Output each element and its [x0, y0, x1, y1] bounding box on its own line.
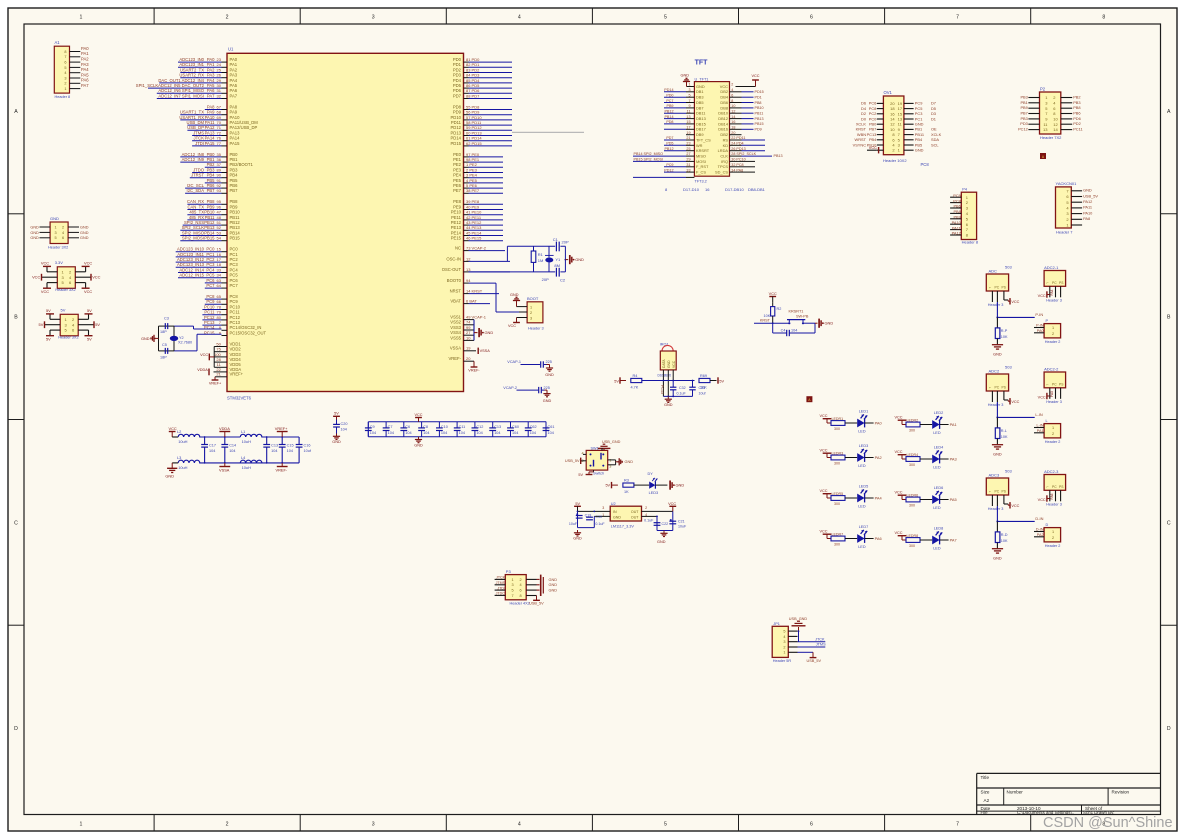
svg-text:GND: GND — [549, 583, 558, 587]
svg-text:3: 3 — [688, 88, 690, 92]
svg-text:PA2: PA2 — [81, 57, 89, 62]
svg-text:5V: 5V — [46, 308, 51, 313]
svg-text:USB_5V: USB_5V — [1083, 193, 1098, 198]
header A1 (Header 8) — [54, 40, 80, 99]
svg-text:GND: GND — [30, 236, 39, 240]
svg-text:10uF: 10uF — [569, 522, 578, 526]
svg-text:C7: C7 — [388, 425, 393, 429]
svg-text:PC: PC — [995, 490, 1000, 494]
capacitor C4 104 — [773, 323, 815, 336]
svg-text:Header 2: Header 2 — [1045, 340, 1061, 344]
MCU VDD pins group — [214, 341, 241, 367]
svg-text:DB8: DB8 — [720, 105, 728, 110]
svg-text:6: 6 — [731, 93, 733, 97]
svg-text:P-IN: P-IN — [1035, 312, 1043, 317]
svg-text:PC9: PC9 — [953, 193, 961, 198]
svg-text:3: 3 — [372, 822, 375, 828]
svg-text:P3: P3 — [506, 569, 512, 574]
LED LED5 — [857, 485, 882, 509]
VCC at ADC2-2 — [1038, 393, 1050, 400]
svg-text:USB_5V: USB_5V — [565, 459, 580, 463]
MCU pin PC14/OSC32_IN (pin 8) — [204, 325, 261, 330]
svg-text:PA6: PA6 — [1050, 493, 1054, 499]
svg-text:104: 104 — [548, 431, 554, 435]
MCU pin PA4 (pin 29) — [158, 78, 237, 83]
svg-text:VCC: VCC — [169, 426, 177, 431]
svg-text:1: 1 — [1052, 530, 1054, 534]
svg-text:62 PD15: 62 PD15 — [466, 141, 482, 146]
svg-text:RS: RS — [723, 137, 729, 142]
svg-text:8M: 8M — [554, 263, 560, 268]
svg-text:PA15: PA15 — [205, 141, 216, 146]
MCU pin PD14 (pin 61) — [451, 136, 512, 141]
svg-text:93: 93 — [217, 188, 222, 193]
MCU pin PE0 (pin 97) — [453, 152, 503, 157]
TFT bottom annotation — [665, 187, 766, 192]
svg-text:Header 2: Header 2 — [1045, 440, 1061, 444]
capacitor C20 104 — [333, 420, 347, 434]
MCU pin PD3 (pin 84) — [453, 73, 512, 78]
inductor L1 10uH — [240, 429, 262, 444]
svg-text:MISO: MISO — [696, 154, 706, 159]
svg-text:225: 225 — [544, 386, 550, 390]
svg-text:7: 7 — [688, 99, 690, 103]
svg-text:5V: 5V — [61, 308, 66, 313]
svg-text:PA8: PA8 — [1083, 216, 1090, 221]
svg-text:GND: GND — [414, 443, 423, 447]
MCU VREF- pin — [448, 356, 480, 373]
MCU pin PD12 (pin 59) — [451, 125, 512, 130]
svg-text:LED2: LED2 — [934, 411, 944, 415]
svg-text:SCL: SCL — [931, 142, 939, 147]
svg-text:C61: C61 — [548, 425, 555, 429]
svg-text:73 VCAP-2: 73 VCAP-2 — [466, 246, 487, 251]
wire PC15 to crystal — [174, 334, 222, 351]
svg-text:PC: PC — [1052, 382, 1057, 386]
MCU pin PA9 (pin 68) — [180, 110, 238, 115]
svg-text:34 PA8: 34 PA8 — [731, 168, 743, 172]
svg-text:PC: PC — [995, 286, 1000, 290]
svg-text:LED3: LED3 — [859, 444, 869, 448]
svg-text:PB11: PB11 — [755, 112, 764, 116]
svg-text:PA15: PA15 — [230, 141, 241, 146]
switch top pin to USB_GND — [601, 448, 603, 450]
svg-text:10: 10 — [466, 335, 471, 340]
svg-text:ADC12_IN7 SPI1_MOSI: ADC12_IN7 SPI1_MOSI — [158, 93, 204, 98]
MCU pin PC15/OSC32_OUT (pin 9) — [204, 330, 266, 335]
svg-text:13: 13 — [466, 267, 471, 272]
potentiometer ADC2 503 — [986, 365, 1012, 408]
wire P-IN — [996, 302, 1043, 318]
svg-text:GND: GND — [549, 589, 558, 593]
svg-text:PB10: PB10 — [755, 106, 764, 110]
svg-text:1: 1 — [530, 305, 532, 309]
svg-text:KRSRT1: KRSRT1 — [789, 309, 804, 313]
svg-text:14: 14 — [731, 115, 735, 119]
ground above BOOT header — [510, 293, 520, 307]
svg-text:1: 1 — [609, 459, 611, 463]
MCU pin PE9 (pin 40) — [453, 204, 503, 209]
svg-text:JTRST: JTRST — [191, 173, 204, 178]
svg-text:VCC: VCC — [200, 353, 208, 357]
svg-text:4: 4 — [731, 88, 733, 92]
MCU pin PD0 (pin 81) — [453, 57, 512, 62]
MCU pin PC0 (pin 15) — [176, 247, 239, 252]
svg-text:2: 2 — [783, 645, 785, 649]
svg-text:5: 5 — [783, 630, 785, 634]
svg-text:Header 3X2: Header 3X2 — [48, 246, 68, 250]
GND at VSS pins — [474, 328, 493, 337]
svg-text:8: 8 — [731, 99, 733, 103]
header P3 (Header 4X2) — [495, 569, 537, 606]
svg-text:300: 300 — [909, 504, 915, 508]
MCU pin PB8 (pin 95) — [187, 199, 238, 204]
svg-text:VCC: VCC — [751, 74, 759, 78]
switch bottom pin to 5V — [578, 470, 593, 477]
svg-text:18P: 18P — [160, 356, 167, 360]
svg-text:VCC: VCC — [84, 261, 92, 266]
capacitor C3 18P — [160, 317, 169, 335]
header GND (Header 3X2) — [30, 216, 88, 250]
svg-text:PA7: PA7 — [81, 83, 89, 88]
svg-text:Y2: Y2 — [179, 336, 184, 340]
USB_5V at P3 pin8 — [526, 596, 544, 606]
MCU pin PB10 (pin 47) — [187, 210, 240, 215]
net PC13 at sensor — [660, 385, 664, 394]
svg-text:VCC: VCC — [820, 449, 828, 453]
capacitor C6 104 — [400, 422, 411, 437]
svg-text:JTDI: JTDI — [497, 586, 505, 590]
capacitor C60 104 — [507, 422, 519, 437]
svg-text:10uf: 10uf — [699, 392, 706, 396]
svg-text:Number: Number — [1007, 790, 1024, 795]
LED DY (LED3) — [648, 472, 668, 495]
svg-text:PA7: PA7 — [950, 537, 957, 542]
svg-text:1: 1 — [55, 225, 57, 229]
MCU pin PC10 (pin 78) — [202, 304, 240, 309]
5V at power LED — [605, 482, 617, 488]
svg-text:C13: C13 — [494, 425, 501, 429]
MCU pin PB0 (pin 35) — [180, 152, 238, 157]
resistor R1 1M — [531, 246, 543, 272]
svg-text:503: 503 — [1005, 469, 1012, 474]
svg-text:21: 21 — [216, 372, 221, 377]
svg-text:VDDA: VDDA — [197, 368, 208, 372]
svg-text:20P: 20P — [542, 277, 549, 282]
svg-text:ADC12_IN9: ADC12_IN9 — [182, 157, 205, 162]
capacitor C30 0.1uF — [586, 515, 605, 526]
crystal loop wires — [159, 326, 175, 351]
MCU pin PE7 (pin 38) — [453, 188, 503, 193]
MCU pin PB13 (pin 52) — [180, 225, 240, 230]
MCU pin BOOT0 — [447, 278, 496, 283]
svg-text:6 BAT: 6 BAT — [466, 299, 477, 304]
svg-text:VCC: VCC — [1011, 300, 1019, 304]
svg-text:VCC: VCC — [895, 531, 903, 535]
svg-text:PB2: PB2 — [1073, 95, 1080, 100]
svg-text:104: 104 — [512, 431, 518, 435]
svg-text:DATA: DATA — [662, 359, 666, 368]
svg-text:VCC: VCC — [820, 489, 828, 493]
5V input at U2 — [574, 502, 581, 512]
svg-text:TFT_CS: TFT_CS — [696, 137, 711, 142]
svg-text:54: 54 — [217, 236, 222, 241]
svg-text:L2: L2 — [177, 429, 181, 434]
MCU pin PA3 (pin 26) — [179, 73, 237, 78]
svg-text:503: 503 — [1005, 365, 1012, 370]
capacitor C10 104 — [436, 422, 448, 437]
svg-text:⌐: ⌐ — [989, 386, 991, 390]
svg-text:D17-DB10: D17-DB10 — [725, 187, 744, 192]
svg-text:3.3V: 3.3V — [55, 260, 64, 265]
svg-text:GND: GND — [667, 360, 671, 368]
svg-text:2: 2 — [226, 822, 229, 828]
svg-text:104: 104 — [271, 449, 277, 453]
svg-text:5: 5 — [64, 66, 66, 70]
svg-text:VREF-: VREF- — [468, 369, 480, 373]
svg-text:46 PE15: 46 PE15 — [466, 236, 482, 241]
MCU pin PC9 (pin 66) — [205, 299, 239, 304]
svg-text:104: 104 — [530, 431, 536, 435]
MCU pin PC11 (pin 79) — [202, 310, 240, 315]
MCU pin PE4 (pin 3) — [453, 173, 503, 178]
svg-text:LED3: LED3 — [649, 491, 659, 495]
svg-text:VCC: VCC — [41, 289, 49, 294]
svg-text:GND: GND — [993, 453, 1002, 457]
svg-text:F_RST: F_RST — [696, 164, 709, 169]
svg-text:PB9: PB9 — [1020, 105, 1027, 110]
svg-text:VCC: VCC — [32, 275, 40, 280]
svg-text:1: 1 — [1052, 426, 1054, 430]
svg-text:R-L: R-L — [1001, 429, 1007, 433]
capacitor C14 104 — [221, 437, 236, 463]
svg-text:10uH: 10uH — [178, 439, 187, 444]
svg-text:C5: C5 — [162, 343, 167, 347]
svg-text:L1: L1 — [241, 429, 245, 434]
MCU pin PB1 (pin 36) — [180, 157, 238, 162]
svg-text:PB15: PB15 — [230, 236, 241, 241]
MCU pin PB14 (pin 53) — [180, 230, 240, 235]
svg-text:7: 7 — [512, 594, 514, 598]
MCU pin PA12/USB_DP (pin 71) — [187, 125, 257, 130]
svg-text:PB7: PB7 — [207, 188, 216, 193]
inductor L2 10uH — [177, 429, 200, 444]
svg-text:B: B — [14, 315, 18, 321]
svg-text:1: 1 — [783, 651, 785, 655]
svg-text:C12: C12 — [476, 425, 483, 429]
svg-text:L: L — [1046, 419, 1048, 423]
svg-text:GND: GND — [657, 540, 666, 544]
svg-text:SW1: SW1 — [591, 446, 599, 450]
svg-text:GND: GND — [332, 440, 341, 444]
MCU pin PB7 (pin 93) — [185, 188, 238, 193]
svg-text:3: 3 — [530, 316, 532, 320]
svg-text:33: 33 — [686, 168, 690, 172]
svg-text:VCC: VCC — [720, 84, 728, 89]
svg-text:VCC: VCC — [92, 275, 100, 280]
U2 input wiring — [577, 511, 611, 528]
svg-text:USB_5V: USB_5V — [807, 659, 822, 663]
potentiometer ADC2-1 — [1044, 265, 1066, 302]
net labels PA0-PA7 at A1 — [81, 46, 89, 88]
svg-text:IRQ: IRQ — [721, 159, 728, 164]
svg-text:Y1: Y1 — [555, 257, 561, 262]
svg-text:R1: R1 — [538, 252, 544, 257]
svg-text:LED: LED — [933, 465, 941, 469]
svg-text:PC7: PC7 — [230, 283, 239, 288]
svg-text:LED8: LED8 — [934, 527, 944, 531]
svg-text:300: 300 — [834, 462, 840, 466]
svg-text:2: 2 — [530, 311, 532, 315]
svg-text:DB2: DB2 — [720, 89, 728, 94]
MCU VSSA pin — [450, 346, 490, 354]
VCC below BOOT header — [508, 318, 520, 328]
VDDA feed at filter — [219, 426, 230, 437]
MCU pin OSC-IN — [446, 256, 510, 261]
svg-text:GND: GND — [575, 257, 584, 262]
svg-text:PB3: PB3 — [1020, 95, 1027, 100]
resistor R4 4.7K — [631, 374, 665, 390]
svg-text:⌐: ⌐ — [1047, 281, 1049, 285]
MCU pin PC13 (pin 7) — [202, 320, 240, 325]
VCAP-2 capacitor C56 225 — [503, 386, 550, 394]
svg-text:⌐: ⌐ — [1047, 485, 1049, 489]
svg-text:5V: 5V — [46, 336, 51, 341]
svg-text:6: 6 — [64, 61, 66, 65]
svg-text:PE15: PE15 — [451, 236, 462, 241]
MCU pin PA5 (pin 30) — [136, 83, 238, 88]
potentiometer ADC 503 — [986, 265, 1012, 308]
svg-text:ADC2-1: ADC2-1 — [1044, 265, 1059, 270]
MCU pin PE8 (pin 39) — [453, 199, 503, 204]
header YACKCN01 (Header 7) — [1056, 181, 1099, 234]
potentiometer ADC3 503 — [986, 469, 1012, 512]
svg-text:PB14 SPI2_MISO: PB14 SPI2_MISO — [634, 152, 664, 156]
svg-text:GND: GND — [825, 321, 834, 326]
svg-text:PB1: PB1 — [1020, 100, 1027, 105]
svg-text:10: 10 — [1053, 117, 1058, 122]
svg-text:VCC: VCC — [769, 292, 777, 296]
MCU pin PD2 (pin 83) — [453, 67, 512, 72]
svg-text:GND: GND — [545, 373, 554, 377]
svg-text:KD: KD — [723, 143, 729, 148]
MCU pin PD8 (pin 55) — [453, 104, 512, 109]
LED LED1 — [857, 410, 882, 434]
svg-text:TFT: TFT — [695, 60, 709, 67]
svg-text:C20: C20 — [341, 422, 348, 426]
svg-text:VBAT: VBAT — [450, 299, 461, 304]
MCU pin PB12 (pin 51) — [183, 220, 241, 225]
svg-text:PA3: PA3 — [950, 456, 957, 461]
USB_GND above JP1 — [789, 617, 808, 631]
svg-text:LRDA: LRDA — [718, 148, 729, 153]
svg-text:20: 20 — [731, 131, 735, 135]
svg-text:20: 20 — [466, 356, 471, 361]
MCU pin PE1 (pin 98) — [453, 157, 503, 162]
svg-text:GND: GND — [485, 330, 494, 335]
svg-text:ADC: ADC — [989, 268, 998, 273]
svg-text:C21: C21 — [678, 520, 685, 524]
svg-text:C13: C13 — [271, 444, 278, 448]
switch SW1 body — [582, 446, 612, 475]
svg-text:PC13: PC13 — [660, 385, 664, 394]
JP1 pin3 wire JTCK — [798, 637, 826, 641]
svg-text:A2: A2 — [984, 798, 990, 803]
svg-text:OSC-IN: OSC-IN — [446, 256, 461, 261]
svg-text:104: 104 — [229, 449, 235, 453]
MCU pin PD5 (pin 86) — [453, 83, 512, 88]
svg-text:7: 7 — [956, 822, 959, 828]
svg-text:VCC: VCC — [820, 530, 828, 534]
svg-text:Header 3: Header 3 — [1046, 400, 1062, 404]
svg-text:Header 3: Header 3 — [988, 507, 1004, 511]
svg-text:C: C — [14, 520, 18, 526]
svg-text:GND: GND — [141, 337, 150, 341]
svg-text:LED: LED — [858, 545, 866, 549]
svg-text:BOOT0: BOOT0 — [447, 278, 462, 283]
svg-text:DB8-DB1: DB8-DB1 — [748, 187, 766, 192]
MCU pin PA10 (pin 69) — [179, 115, 240, 120]
svg-text:104: 104 — [405, 431, 411, 435]
svg-text:300: 300 — [909, 463, 915, 467]
OV1 left nets — [853, 101, 878, 151]
svg-text:PC15/OSC32_OUT: PC15/OSC32_OUT — [230, 330, 267, 335]
capacitor C2 20P — [542, 268, 566, 283]
resistor LEDR5 300 — [820, 489, 858, 506]
svg-text:JTMS: JTMS — [816, 643, 826, 647]
svg-text:PA6: PA6 — [81, 78, 89, 83]
MCU pin PE15 (pin 46) — [451, 236, 503, 241]
MCU pin PD15 (pin 62) — [451, 141, 512, 146]
JP1 pin5 pin4 to USB_GND — [798, 630, 800, 642]
MCU pin PB11 (pin 48) — [187, 215, 240, 220]
svg-text:VCC: VCC — [820, 414, 828, 418]
svg-text:VCC: VCC — [1011, 400, 1019, 404]
svg-text:300: 300 — [909, 429, 915, 433]
svg-text:L-IN: L-IN — [1035, 412, 1043, 417]
ground at VCAP-2 — [543, 390, 552, 403]
svg-text:PC8: PC8 — [953, 198, 961, 203]
svg-text:29: 29 — [686, 158, 690, 162]
svg-text:6: 6 — [810, 822, 813, 828]
svg-text:PA4: PA4 — [875, 495, 883, 500]
ground at crystal Y1 — [565, 255, 584, 264]
svg-text:Header 3: Header 3 — [1046, 502, 1062, 506]
svg-text:JP1: JP1 — [773, 622, 780, 626]
svg-text:16: 16 — [705, 187, 710, 192]
svg-text:VSSA: VSSA — [219, 468, 230, 473]
svg-text:DB14: DB14 — [718, 121, 729, 126]
ground rail at P3 — [537, 575, 558, 596]
svg-text:D: D — [1046, 523, 1049, 527]
svg-text:Title: Title — [981, 775, 990, 780]
svg-text:JTCK: JTCK — [815, 637, 825, 641]
svg-text:VREF+: VREF+ — [275, 426, 288, 431]
svg-text:Header 2: Header 2 — [1045, 544, 1061, 548]
LED LED2 — [932, 411, 956, 435]
VCC at ADC2 — [1008, 398, 1019, 404]
svg-text:20P: 20P — [562, 240, 569, 245]
U2 output wiring — [642, 511, 673, 530]
svg-text:VCC: VCC — [1011, 504, 1019, 508]
svg-text:BOOT: BOOT — [527, 296, 539, 301]
svg-text:4: 4 — [518, 822, 521, 828]
svg-text:VCC: VCC — [1038, 396, 1046, 400]
svg-text:Switch: Switch — [593, 472, 604, 476]
capacitor C1 20P — [553, 237, 569, 251]
resistor LEDR1 300 — [820, 414, 858, 431]
svg-text:8: 8 — [520, 594, 522, 598]
